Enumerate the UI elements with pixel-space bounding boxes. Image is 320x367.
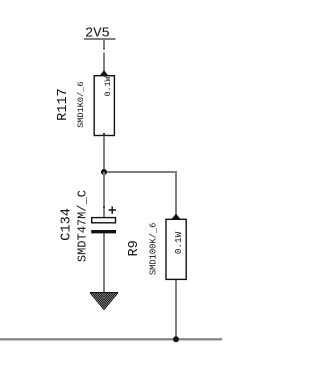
svg-text:0.1W: 0.1W bbox=[173, 231, 184, 254]
wire 2V5 to R117 bbox=[103, 53, 105, 72]
svg-text:C134: C134 bbox=[59, 208, 74, 241]
wire bottom rail bbox=[0, 338, 222, 340]
svg-text:SMD1K0/_6: SMD1K0/_6 bbox=[76, 81, 86, 127]
wire junction to R9 branch bbox=[104, 171, 177, 173]
wire C134 to ground bbox=[103, 234, 105, 293]
resistor R9 bbox=[166, 214, 186, 280]
resistor R117 bbox=[94, 70, 114, 135]
capacitor C134 bbox=[91, 206, 116, 233]
wire R9 to bottom rail bbox=[175, 280, 177, 339]
power symbol 2V5 bbox=[84, 27, 116, 42]
pin tick R9 bottom bbox=[175, 280, 177, 283]
pin tick C134 top bbox=[103, 206, 105, 208]
svg-text:SMDT47M/_C: SMDT47M/_C bbox=[75, 190, 89, 262]
svg-text:2V5: 2V5 bbox=[85, 27, 110, 42]
node junction dot bottom bbox=[173, 336, 179, 342]
svg-text:0.1W: 0.1W bbox=[104, 77, 113, 97]
pin tick R117 bottom bbox=[103, 133, 105, 136]
ground bbox=[90, 293, 118, 310]
node junction dot bbox=[101, 169, 107, 175]
svg-text:R117: R117 bbox=[56, 88, 71, 121]
wire power stub bbox=[103, 40, 105, 50]
svg-text:R9: R9 bbox=[127, 240, 142, 256]
wire junction to C134 bbox=[103, 172, 105, 218]
wire R117 to junction bbox=[103, 136, 105, 172]
svg-text:SMD100K/_6: SMD100K/_6 bbox=[149, 223, 159, 276]
